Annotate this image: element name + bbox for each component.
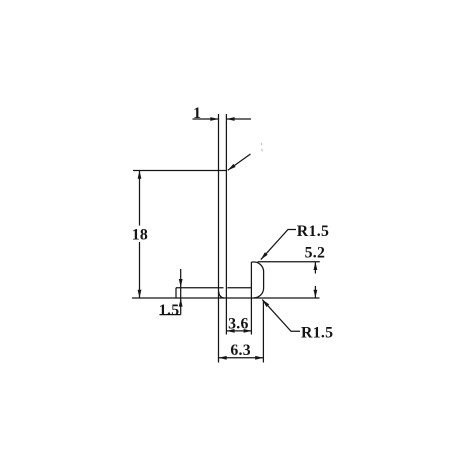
wire wall top cap: [219, 170, 227, 172]
node arrow 1-dim right: [226, 117, 234, 121]
node arrow 18-dim top: [138, 171, 142, 179]
wire wall left edge / extension line: [218, 114, 220, 363]
wire 18-dim top extension line: [133, 170, 219, 172]
wire plate top surface right: [227, 287, 251, 289]
wire 1-dim line left: [193, 118, 219, 120]
wire 6.3-dim right extension line: [262, 301, 264, 363]
svg-text:1: 1: [193, 105, 201, 122]
wire plate left end edge: [175, 288, 177, 298]
svg-text:5.2: 5.2: [305, 244, 326, 261]
node arrow 3.6-dim left: [226, 329, 234, 333]
wire bulb left edge / extension line: [250, 262, 252, 335]
node arrow 1.5-dim top: [179, 279, 183, 287]
svg-text:6.3: 6.3: [230, 342, 251, 359]
wire 5.2 dimension line lower: [314, 286, 316, 298]
wire R1.5 top leader: [261, 230, 296, 260]
node arrow R1.5 top leader: [261, 252, 268, 259]
node arrow leader wall top: [228, 164, 236, 170]
svg-text:1.5: 1.5: [159, 302, 180, 319]
node arrow 6.3-dim left: [219, 356, 227, 360]
node arrow 1-dim left: [210, 117, 218, 121]
wire 1.5 dimension line: [180, 269, 182, 315]
wire 1.5 text underline: [160, 314, 181, 316]
wire wall right edge / extension line: [225, 114, 227, 335]
wire 18 dimension line lower: [139, 242, 141, 298]
node arrow 3.6-dim right: [244, 329, 252, 333]
wire plate top surface left: [176, 287, 224, 289]
wire fillet arc at wall base: [219, 292, 224, 298]
wire bulb outline: [251, 262, 263, 298]
svg-text:R1.5: R1.5: [301, 324, 333, 341]
node arrow 5.2-dim bottom: [314, 290, 318, 298]
wire 5.2 dimension line upper: [314, 262, 316, 274]
svg-text:18: 18: [132, 226, 148, 243]
svg-text:R1.5: R1.5: [297, 223, 329, 240]
wire 6.3 dimension line: [219, 357, 264, 359]
wire 1-dim line right: [226, 118, 251, 120]
wire R1.5 bottom leader: [262, 300, 300, 332]
wire bottom edge / extension line: [132, 297, 320, 299]
node faint mark upper: [260, 143, 263, 145]
node arrow 18-dim bottom: [138, 290, 142, 298]
svg-text:3.6: 3.6: [228, 315, 249, 332]
node arrow 1.5-dim bottom: [179, 298, 183, 306]
wire 5.2-dim top extension line: [258, 261, 320, 263]
node arrow 6.3-dim right: [255, 356, 263, 360]
node faint mark lower: [261, 149, 263, 152]
wire 3.6 dimension line: [226, 330, 251, 332]
wire 18 dimension line upper: [139, 171, 141, 226]
node arrow 5.2-dim top: [314, 262, 318, 270]
wire leader to wall top: [228, 154, 251, 170]
node arrow R1.5 bottom leader: [262, 300, 269, 307]
